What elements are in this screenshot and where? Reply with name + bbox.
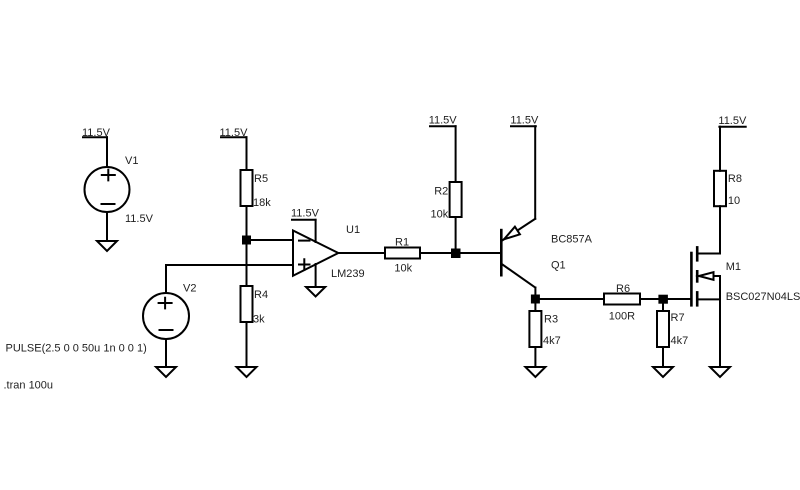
svg-text:18k: 18k (253, 197, 271, 209)
wire R3 bottom (534, 347, 536, 367)
svg-text:PULSE(2.5 0 0 50u 1n 0 0 1): PULSE(2.5 0 0 50u 1n 0 0 1) (6, 343, 147, 355)
wire R8 top (719, 127, 721, 171)
flag 11.5V at R5 top (220, 127, 249, 139)
svg-text:11.5V: 11.5V (510, 115, 539, 127)
node junction R5/R4/opamp (242, 236, 251, 245)
svg-text:10k: 10k (431, 209, 449, 221)
flag 11.5V at R8 top (718, 115, 747, 127)
wire V1 bottom (106, 212, 108, 241)
node junction R6/R7/gate (658, 295, 668, 304)
svg-text:R8: R8 (728, 173, 742, 185)
flag 11.5V at opamp power (291, 208, 320, 220)
svg-text:R6: R6 (616, 283, 630, 295)
svg-text:R5: R5 (254, 173, 268, 185)
svg-text:.tran 100u: .tran 100u (4, 380, 54, 392)
svg-text:4k7: 4k7 (671, 335, 689, 347)
wire R8 bottom to drain (719, 206, 721, 253)
wire opamp output to R1 (338, 252, 385, 254)
svg-text:10k: 10k (394, 262, 412, 274)
svg-text:3k: 3k (253, 314, 265, 326)
svg-text:R2: R2 (434, 186, 448, 198)
voltage source V2 (143, 293, 189, 339)
svg-text:10: 10 (728, 195, 740, 207)
wire Q1 emitter top (534, 126, 536, 219)
wire R7 bottom (662, 347, 664, 367)
resistor R8 (714, 171, 726, 206)
svg-text:4k7: 4k7 (543, 335, 561, 347)
ground under R3 (525, 367, 545, 377)
svg-text:V1: V1 (125, 155, 138, 167)
svg-text:11.5V: 11.5V (718, 115, 747, 127)
mosfet M1 (691, 247, 720, 305)
svg-text:R4: R4 (254, 289, 268, 301)
flag 11.5V at Q1 emitter (510, 115, 539, 127)
wire R1 to Q1 base (420, 252, 500, 254)
flag 11.5V at R2 top (429, 115, 458, 127)
wire junction to opamp minus (247, 239, 294, 241)
resistor R2 (450, 182, 462, 217)
wire opamp V+ (315, 220, 317, 242)
ground under opamp (306, 287, 325, 297)
op-amp U1 (293, 231, 338, 276)
svg-text:BC857A: BC857A (551, 234, 593, 246)
ground under V1 (97, 241, 117, 251)
svg-text:Q1: Q1 (551, 260, 566, 272)
wire junction to R3 (534, 299, 536, 311)
ground under R7 (653, 367, 673, 377)
ground under V2 (156, 367, 176, 377)
resistor R7 (657, 311, 669, 347)
ground under M1 (710, 367, 730, 377)
svg-text:R7: R7 (671, 312, 685, 324)
svg-text:R3: R3 (544, 314, 558, 326)
wire opamp V- (315, 264, 317, 287)
wire R2 bottom (455, 217, 457, 253)
flag 11.5V at V1 top (82, 127, 111, 139)
wire M1 source down (719, 276, 721, 367)
node junction R1/R2/base (451, 249, 461, 259)
wire R4 bottom (246, 322, 248, 367)
svg-text:11.5V: 11.5V (429, 115, 458, 127)
wire R2 top (455, 126, 457, 182)
wire V2 to opamp plus (166, 265, 293, 293)
wire R6 to gate (640, 298, 691, 300)
wire Q1 collector down (534, 288, 536, 300)
wire V2 bottom (165, 339, 167, 367)
svg-text:11.5V: 11.5V (291, 208, 320, 220)
resistor R5 (241, 170, 253, 206)
wire junction to R6 (535, 298, 604, 300)
wire R5 top (246, 137, 248, 170)
svg-text:R1: R1 (395, 236, 409, 248)
voltage source V1 (85, 167, 130, 212)
wire junction to R7 (662, 299, 664, 311)
wire V1 top (106, 137, 108, 167)
svg-text:U1: U1 (346, 224, 360, 236)
resistor R4 (241, 286, 253, 322)
svg-text:11.5V: 11.5V (125, 213, 154, 225)
svg-text:M1: M1 (726, 261, 741, 273)
resistor R3 (529, 311, 541, 347)
wire R5 bottom to R4 top (246, 206, 248, 286)
svg-text:LM239: LM239 (331, 268, 365, 280)
ground under R4 (237, 367, 257, 377)
transistor Q1 (501, 219, 535, 288)
svg-text:V2: V2 (183, 283, 196, 295)
svg-text:100R: 100R (609, 311, 635, 323)
svg-text:BSC027N04LS: BSC027N04LS (726, 291, 800, 303)
resistor R6 (604, 294, 640, 305)
resistor R1 (385, 248, 420, 259)
node junction collector/R3/R6 (531, 295, 540, 304)
